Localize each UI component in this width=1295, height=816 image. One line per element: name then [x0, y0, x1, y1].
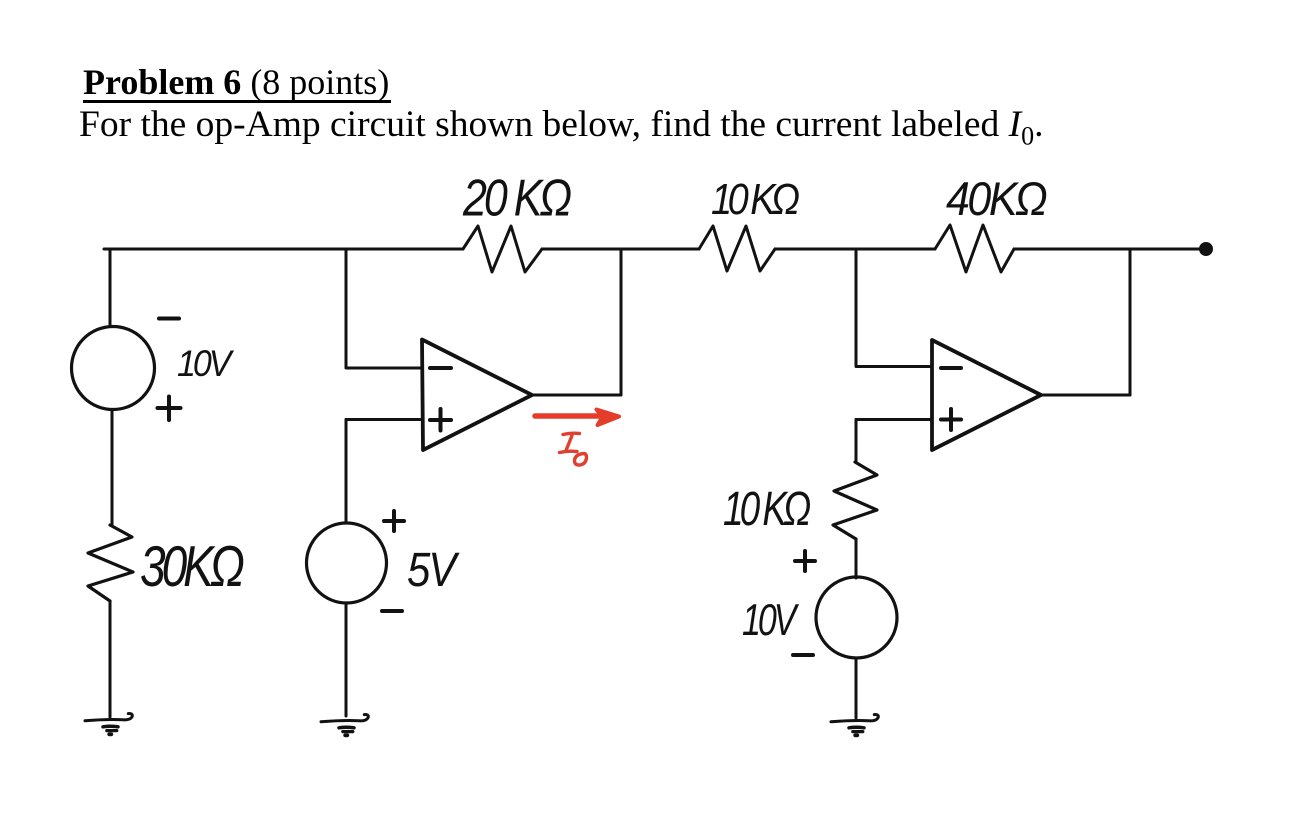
svg-text:40KΩ: 40KΩ — [946, 172, 1046, 225]
svg-text:5V: 5V — [407, 542, 460, 596]
svg-text:20 KΩ: 20 KΩ — [462, 170, 571, 228]
svg-text:10V: 10V — [742, 596, 800, 645]
svg-text:10 KΩ: 10 KΩ — [723, 482, 811, 536]
svg-text:10 KΩ: 10 KΩ — [711, 175, 799, 224]
svg-text:10V: 10V — [177, 343, 234, 385]
svg-text:30KΩ: 30KΩ — [140, 535, 243, 599]
